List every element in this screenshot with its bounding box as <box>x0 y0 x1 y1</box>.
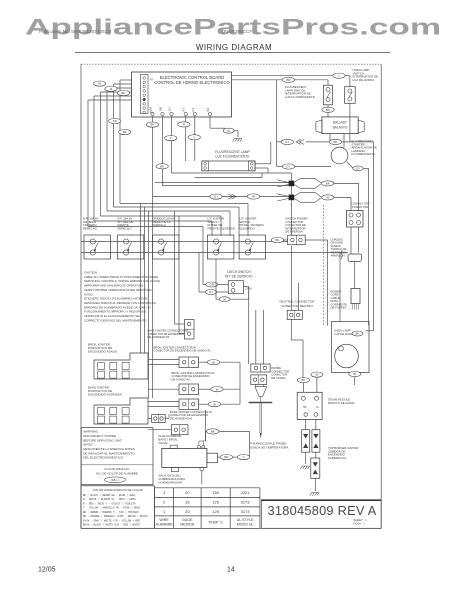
svg-text:DE ENERGIA: DE ENERGIA <box>285 230 302 234</box>
svg-text:BK: BK <box>160 164 164 168</box>
svg-text:DE HORNEAR #1: DE HORNEAR #1 <box>170 416 193 420</box>
svg-text:ARMAZON: ARMAZON <box>331 254 345 258</box>
svg-text:9-1: 9-1 <box>182 107 186 111</box>
svg-text:W - WHITE / BLANCO GY - G: W - WHITE / BLANCO GY - GRAY / GRIS <box>83 498 136 501</box>
svg-text:AppliancePartsPros.com: AppliancePartsPros.com <box>25 14 441 39</box>
svg-text:BK: BK <box>121 91 125 95</box>
svg-text:CONECTOR DE ENCENDIDO DE ASADO: CONECTOR DE ENCENDIDO DE ASADO #1 <box>154 349 212 353</box>
svg-text:BK: BK <box>150 123 154 127</box>
svg-text:MEDIDA: MEDIDA <box>180 523 195 527</box>
svg-text:W: W <box>98 82 101 86</box>
svg-text:OR - ORANGE / ANARANJ. W/BK -: OR - ORANGE / ANARANJ. W/BK - WHITE / BL… <box>83 515 148 518</box>
svg-text:BR - BROWN / MARRON T - T: BR - BROWN / MARRON T - TAN / TOSTADO <box>83 511 139 514</box>
svg-text:WIRING DIAGRAM: WIRING DIAGRAM <box>196 43 272 52</box>
svg-text:LATCH SWITCH: LATCH SWITCH <box>227 270 251 274</box>
svg-text:18: 18 <box>185 500 190 505</box>
svg-text:CONECTOR: CONECTOR <box>352 205 369 209</box>
svg-text:Y - YELLOW / AMARILLO PK - P: Y - YELLOW / AMARILLO PK - PINK / ROSA <box>83 507 141 510</box>
svg-text:LUZ FLUORESCENTE: LUZ FLUORESCENTE <box>285 95 315 99</box>
svg-text:2321: 2321 <box>241 490 251 495</box>
svg-text:BU: BU <box>326 108 330 112</box>
svg-text:DERECHO: DERECHO <box>118 226 133 230</box>
svg-text:W: W <box>213 402 216 406</box>
svg-text:150: 150 <box>212 490 219 495</box>
svg-text:BK: BK <box>275 238 279 242</box>
svg-text:FRENTE IZQUIERDO: FRENTE IZQUIERDO <box>208 226 236 230</box>
svg-text:20: 20 <box>185 490 190 495</box>
svg-text:10-7: 10-7 <box>168 106 172 112</box>
svg-text:NO. DE COLOR DE ALAMBRE: NO. DE COLOR DE ALAMBRE <box>96 471 138 475</box>
svg-text:BK: BK <box>355 332 359 336</box>
svg-text:(S/N- ): (S/N- ) <box>111 478 120 482</box>
svg-text:WIRE: WIRE <box>159 518 169 522</box>
svg-text:LUZ FLUORESCENTE: LUZ FLUORESCENTE <box>216 155 251 159</box>
svg-text:GY/W - GRAY / WHITE Y/R -: GY/W - GRAY / WHITE Y/R - YELLOW / RED <box>83 519 141 522</box>
svg-text:CONTROL DE HORNO ELECTRONICO: CONTROL DE HORNO ELECTRONICO <box>154 80 230 85</box>
svg-text:PK: PK <box>113 119 117 123</box>
svg-text:BK - BLACK / NEGRO BU - B: BK - BLACK / NEGRO BU - BLUE / AZUL <box>83 494 136 497</box>
svg-text:FLUORESCENT LAMP: FLUORESCENT LAMP <box>215 150 250 154</box>
svg-text:GY: GY <box>356 167 360 171</box>
svg-text:W: W <box>252 195 255 199</box>
svg-text:W: W <box>216 387 219 391</box>
svg-text:SONDA DE TEMPERATURA: SONDA DE TEMPERATURA <box>250 446 289 450</box>
svg-text:LUZ DE HORNO: LUZ DE HORNO <box>353 78 376 82</box>
svg-text:NEUTRAL CONNECTOR: NEUTRAL CONNECTOR <box>279 300 315 304</box>
svg-text:20: 20 <box>185 509 190 514</box>
svg-text:12/05: 12/05 <box>38 567 56 574</box>
svg-text:DEL ELECTRODOMESTICO.: DEL ELECTRODOMESTICO. <box>83 456 124 460</box>
svg-text:Y: Y <box>193 135 195 139</box>
svg-text:W: W <box>223 297 226 301</box>
svg-text:HORNEAR/ASAR: HORNEAR/ASAR <box>158 481 183 485</box>
svg-text:DE FUERZA: DE FUERZA <box>331 306 347 310</box>
svg-text:BK: BK <box>301 378 305 382</box>
svg-text:IZQUIERDO: IZQUIERDO <box>239 226 255 230</box>
svg-text:HOJA : 1: HOJA : 1 <box>354 522 366 526</box>
svg-text:COLOR CODE/CODIGOS DE COLOR: COLOR CODE/CODIGOS DE COLOR <box>93 488 143 492</box>
svg-text:P2: P2 <box>150 78 154 82</box>
svg-text:INT. DE CERROJO: INT. DE CERROJO <box>225 275 253 279</box>
svg-text:ENCENDIDO HORNEAR: ENCENDIDO HORNEAR <box>88 393 123 397</box>
svg-text:Y: Y <box>338 74 340 78</box>
svg-text:14: 14 <box>227 567 235 574</box>
svg-text:PARRILLA: PARRILLA <box>153 223 166 227</box>
svg-text:318045809 REV A: 318045809 REV A <box>268 503 377 518</box>
svg-text:9-2: 9-2 <box>191 107 195 111</box>
svg-text:3173: 3173 <box>241 509 251 514</box>
svg-text:W: W <box>212 360 215 364</box>
svg-text:CONECTOR NEUTRO: CONECTOR NEUTRO <box>281 304 313 308</box>
svg-text:BALASTO: BALASTO <box>333 125 348 129</box>
svg-text:V: V <box>170 136 172 140</box>
svg-text:BK: BK <box>123 130 127 134</box>
svg-text:UL STYLE: UL STYLE <box>237 518 254 522</box>
svg-text:BK: BK <box>211 430 215 434</box>
svg-text:10B: 10B <box>159 107 163 112</box>
svg-text:Y: Y <box>243 455 245 459</box>
svg-text:W: W <box>353 372 356 376</box>
svg-text:BK: BK <box>326 182 330 186</box>
svg-text:125: 125 <box>212 509 219 514</box>
svg-text:DE ASADO #2: DE ASADO #2 <box>172 377 191 381</box>
svg-text:10A: 10A <box>149 107 153 112</box>
svg-text:(PLEF398CCF): (PLEF398CCF) <box>222 29 254 34</box>
svg-text:GY: GY <box>209 290 213 294</box>
svg-text:GY: GY <box>285 140 289 144</box>
svg-text:W: W <box>326 196 329 200</box>
svg-text:TEMP °C: TEMP °C <box>208 521 223 525</box>
svg-text:W: W <box>315 373 318 377</box>
svg-text:DE SONDA: DE SONDA <box>271 376 286 380</box>
svg-text:VERIFY PROPER OPERATION AFTER: VERIFY PROPER OPERATION AFTER SERVICING. <box>84 288 153 292</box>
svg-text:SUPERFICIAL: SUPERFICIAL <box>328 456 347 460</box>
svg-text:8-2: 8-2 <box>206 107 210 111</box>
svg-text:CORRECTO DESPUES DEL MANTENIMI: CORRECTO DESPUES DEL MANTENIMIENTO. <box>84 318 147 322</box>
svg-text:125: 125 <box>212 500 219 505</box>
svg-text:BK/W - BLACK / WHITE R/W -: BK/W - BLACK / WHITE R/W - RED / WHITE <box>83 524 141 527</box>
svg-text:BK: BK <box>333 140 337 144</box>
svg-text:MODO UL: MODO UL <box>237 523 254 527</box>
svg-text:BK: BK <box>303 406 307 409</box>
svg-text:Publication No: 5995361307 (05: Publication No: 5995361307 (0512) <box>39 29 112 34</box>
svg-text:DERECHO: DERECHO <box>83 226 98 230</box>
svg-text:W: W <box>227 129 230 133</box>
svg-text:GY: GY <box>214 195 218 199</box>
svg-text:MODULO DE CHIMA: MODULO DE CHIMA <box>328 401 355 405</box>
svg-text:3173: 3173 <box>241 500 251 505</box>
svg-text:ALAMBRE: ALAMBRE <box>156 523 174 527</box>
svg-text:DE HORNEAR #2: DE HORNEAR #2 <box>148 335 170 339</box>
svg-text:FLUORESCENTE: FLUORESCENTE <box>352 152 376 156</box>
svg-text:ENCENDIDO ASADO: ENCENDIDO ASADO <box>88 350 118 354</box>
svg-text:GY: GY <box>286 165 290 169</box>
svg-text:VALVE: VALVE <box>158 441 167 445</box>
svg-text:R - RED / ROJO V - V: R - RED / ROJO V - VIOLET / VIOLETA <box>83 502 136 505</box>
svg-text:COLOR WIRE NO.: COLOR WIRE NO. <box>104 467 130 471</box>
svg-text:BALLAST: BALLAST <box>333 120 347 124</box>
svg-text:GAGE: GAGE <box>182 518 193 522</box>
